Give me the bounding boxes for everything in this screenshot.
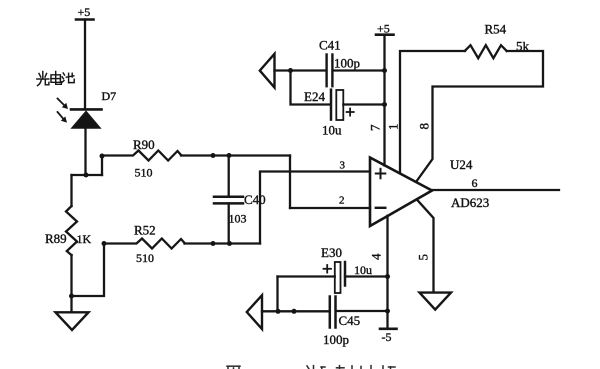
U24 label [450, 157, 473, 172]
E30 value 10u [354, 263, 372, 277]
pin number 1 (rotated) [386, 124, 401, 131]
junction dot C40 top [227, 153, 232, 158]
wire op-amp pin 5 down [418, 201, 434, 291]
wire riser to pin3 [260, 172, 370, 244]
svg-text:R90: R90 [133, 137, 155, 152]
wire R90 to jog [181, 154, 290, 156]
output wire pin 6 [432, 189, 559, 191]
junction dot C45 right on pin4 rail [385, 309, 390, 314]
capacitor C40 [214, 156, 243, 244]
C41 value 100p [334, 56, 360, 71]
junction dot C41 right on +5 rail [382, 68, 387, 73]
svg-text:R54: R54 [485, 22, 507, 37]
electrolytic capacitor E24 [331, 90, 385, 120]
svg-text:U24: U24 [450, 157, 473, 172]
E30 label [321, 245, 342, 260]
node: anode junction horizontal wire [72, 174, 103, 176]
svg-text:6: 6 [472, 176, 478, 190]
wire bottom node to R52 column [72, 244, 105, 297]
junction dot C40 bottom [227, 241, 232, 246]
R52 value 510 [136, 251, 154, 265]
svg-text:D7: D7 [102, 89, 117, 103]
R90 value 510 [135, 166, 153, 180]
svg-text:+5: +5 [78, 5, 91, 19]
E24 value 10u [322, 123, 342, 138]
junction dot anode [84, 173, 89, 178]
wire E24 branch [291, 71, 331, 105]
C40 label [244, 192, 266, 207]
C45 label [339, 313, 361, 328]
svg-text:C40: C40 [244, 192, 266, 207]
power -5 terminal [380, 327, 397, 330]
wire into op-amp pin 2 [290, 207, 370, 209]
C40 value 103 [229, 212, 247, 226]
svg-text:100p: 100p [323, 332, 349, 347]
svg-text:-5: -5 [382, 330, 392, 344]
junction dot R52 left [102, 241, 107, 246]
svg-text:7: 7 [368, 124, 383, 131]
caption fragment 使用放大电路 (clipped at page bottom) [307, 366, 395, 369]
resistor R90 [102, 151, 181, 161]
svg-text:10u: 10u [322, 123, 342, 138]
pin number 6 [472, 176, 478, 190]
junction dot R89 bottom [69, 294, 74, 299]
junction dot C41 left node [288, 68, 293, 73]
resistor R54 [465, 45, 507, 58]
ground symbol left [56, 312, 89, 330]
svg-text:AD623: AD623 [451, 195, 489, 210]
svg-text:8: 8 [417, 123, 432, 130]
wire op-amp pin 4 down [386, 216, 388, 328]
+5 label (top left) [78, 5, 91, 19]
svg-text:E24: E24 [304, 89, 325, 104]
光电池 label (hand-drawn glyphs) [37, 72, 74, 86]
svg-text:510: 510 [136, 251, 154, 265]
junction dot on R90 wire [211, 153, 216, 158]
wire R52 to riser [185, 242, 261, 244]
wire op-amp pin 1 up [400, 51, 465, 173]
svg-text:510: 510 [135, 166, 153, 180]
svg-text:10u: 10u [354, 263, 372, 277]
power +5 terminal (top left) [76, 18, 94, 21]
pin number 4 (rotated) [369, 253, 384, 260]
svg-text:4: 4 [369, 253, 384, 260]
caption fragment 图 (clipped at page bottom) [227, 366, 240, 369]
wire R54 to pin 8 [417, 51, 543, 180]
R54 label [485, 22, 507, 37]
svg-text:1: 1 [386, 124, 401, 131]
svg-text:C45: C45 [339, 313, 361, 328]
capacitor C41 [327, 55, 385, 87]
wire +5 rail to op-amp pin 7 [383, 35, 385, 166]
ground symbol right [420, 293, 452, 310]
junction dot E24 right on +5 rail [382, 102, 387, 107]
svg-text:100p: 100p [334, 56, 360, 71]
svg-text:3: 3 [340, 160, 346, 172]
wire E30 branch down [276, 277, 278, 312]
junction dot extra [292, 309, 297, 314]
R90 label [133, 137, 155, 152]
pin number 8 (rotated) [417, 123, 432, 130]
R52 label [134, 223, 156, 238]
svg-text:+5: +5 [377, 22, 390, 36]
svg-text:R89: R89 [45, 231, 67, 246]
wire photodiode anode down [84, 128, 86, 175]
power +5 terminal (middle) [376, 33, 394, 36]
op-amp U24 triangle [370, 158, 432, 227]
junction dot R90 left [100, 154, 105, 159]
wire jog down to pin2 level [289, 156, 291, 209]
C41 label [319, 38, 341, 53]
pin number 2 [339, 195, 345, 207]
junction dot on R52 wire [211, 241, 216, 246]
C45 value 100p [323, 332, 349, 347]
svg-text:5: 5 [416, 254, 431, 261]
light arrow 1 [58, 99, 69, 110]
R54 value 5k [516, 39, 530, 54]
R89 value 1K [77, 232, 92, 246]
wire up to R90 node [101, 156, 103, 175]
wire arrow to C45 [262, 310, 329, 312]
svg-text:R52: R52 [134, 223, 156, 238]
pin number 3 [340, 160, 346, 172]
R89 label [45, 231, 67, 246]
capacitor C45 [330, 297, 388, 328]
pin number 5 (rotated) [416, 254, 431, 261]
junction dot E30 branch [276, 309, 281, 314]
ground stub left [70, 296, 72, 312]
-5 label [382, 330, 392, 344]
junction dot E30 right on pin4 rail [385, 274, 390, 279]
op-amp minus input marker [376, 207, 386, 209]
light arrow 2 [58, 112, 68, 123]
resistor R89 [66, 206, 77, 255]
E30 plus sign [324, 265, 332, 273]
photodiode D7 [71, 109, 102, 128]
ground arrow top-left (C41 return) [260, 54, 275, 88]
electrolytic capacitor E30 [278, 262, 388, 293]
svg-text:E30: E30 [321, 245, 342, 260]
wire R89 bottom lead [70, 255, 72, 296]
pin number 7 (rotated) [368, 124, 383, 131]
op-amp plus input marker [376, 169, 386, 179]
wire R89 top lead [70, 175, 72, 206]
wire arrow to C41 [275, 69, 326, 71]
svg-text:C41: C41 [319, 38, 341, 53]
AD623 label [451, 195, 489, 210]
wire +5 to photodiode cathode [84, 20, 86, 110]
svg-text:1K: 1K [77, 232, 92, 246]
D7 label [102, 89, 117, 103]
+5 label (middle) [377, 22, 390, 36]
svg-text:2: 2 [339, 195, 345, 207]
E24 label [304, 89, 325, 104]
E24 plus sign [347, 109, 354, 116]
resistor R52 [104, 239, 185, 249]
svg-text:103: 103 [229, 212, 247, 226]
ground arrow bottom-left (C45 return) [247, 295, 262, 329]
